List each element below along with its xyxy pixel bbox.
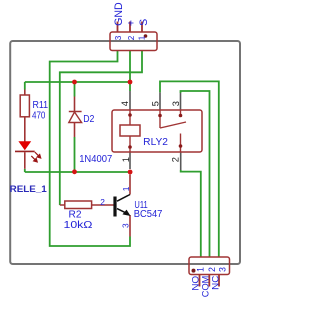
relay pin2 gray lead — [180, 152, 182, 170]
relay RLY2 coil body — [120, 125, 140, 136]
svg-text:NC: NC — [210, 276, 221, 290]
svg-text:GND: GND — [113, 2, 125, 26]
svg-text:10kΩ: 10kΩ — [64, 220, 94, 231]
resistor R11 leads — [24, 90, 26, 142]
wire + to D2 top — [74, 82, 76, 97]
diode D2 cathode bar — [69, 111, 82, 113]
diode D2 leads — [74, 97, 76, 138]
svg-text:470: 470 — [32, 110, 46, 121]
diode D2 triangle — [69, 112, 82, 123]
svg-text:3: 3 — [218, 267, 228, 272]
svg-text:1: 1 — [195, 267, 205, 272]
wire relay pin2 to NO column — [181, 170, 201, 257]
relay RLY2 pin2 stub — [180, 134, 182, 153]
svg-text:1: 1 — [121, 157, 131, 162]
transistor U11 body — [113, 195, 130, 217]
relay RLY2 pin5 contact stub — [159, 110, 161, 128]
svg-text:D2: D2 — [83, 114, 95, 125]
wire + net vertical from pin2 of J1 — [129, 51, 131, 92]
wire relay pin5 to NC column — [160, 81, 219, 257]
LED emission arrows — [31, 152, 40, 162]
svg-text:1: 1 — [121, 186, 131, 191]
junction dot + rail / relay pin4 — [128, 80, 133, 85]
relay RLY2 coil lead top — [129, 110, 131, 125]
svg-text:3: 3 — [121, 223, 131, 228]
transistor U11 collector lead — [129, 175, 131, 195]
resistor R11 body — [20, 95, 29, 117]
connector J2 box — [189, 257, 230, 275]
connector J1 pin1 marker dot — [144, 34, 148, 38]
relay RLY2 pin3 contact stub — [180, 110, 182, 115]
resistor R2 body — [65, 201, 92, 209]
svg-text:S: S — [138, 19, 150, 26]
connector J2 pin1 marker dot — [192, 269, 196, 273]
junction dot + rail / D2 — [72, 80, 77, 85]
relay pin5 gray lead — [159, 92, 161, 110]
LED D (RELE_1 indicator) leads — [24, 152, 26, 169]
svg-text:4: 4 — [120, 101, 130, 106]
svg-text:1: 1 — [137, 35, 146, 40]
connector J1 box — [110, 32, 157, 51]
svg-text:RELE_1: RELE_1 — [10, 184, 48, 195]
connector J1 pin stubs top — [118, 22, 143, 33]
svg-text:3: 3 — [171, 101, 181, 106]
wire + net horizontal rail to R11 and D2 — [25, 81, 130, 83]
relay RLY2 internal pin dots — [128, 113, 182, 149]
transistor U11 emitter lead — [129, 215, 131, 237]
wire LED cathode elbow — [24, 169, 26, 172]
svg-text:5: 5 — [151, 101, 161, 106]
svg-text:2: 2 — [207, 267, 217, 272]
border frame — [10, 41, 240, 264]
svg-text:2: 2 — [100, 197, 105, 207]
relay pin4 gray lead — [129, 91, 131, 110]
relay RLY2 coil lead bottom — [129, 136, 131, 152]
wire + rail to R11 top — [24, 82, 26, 90]
relay RLY2 box — [112, 110, 202, 152]
LED triangle — [18, 141, 31, 150]
svg-text:3: 3 — [114, 35, 123, 40]
svg-text:1N4007: 1N4007 — [79, 154, 112, 165]
wire collector node horizontal — [25, 171, 130, 173]
wire D2 bottom to collector node — [74, 137, 76, 172]
junction dot collector node / D2 — [72, 169, 77, 174]
svg-text:RLY2: RLY2 — [143, 137, 168, 148]
svg-text:BC547: BC547 — [134, 209, 163, 220]
svg-text:+: + — [125, 20, 137, 26]
LED cathode bar — [15, 150, 35, 152]
relay RLY2 switch arm — [160, 122, 186, 128]
wire GND net: pin3 of J1 down, left, down left side, along bottom to Q emitter — [50, 51, 130, 247]
relay pin3 gray lead — [180, 93, 182, 110]
relay pin1 gray lead — [129, 152, 131, 169]
svg-text:2: 2 — [171, 157, 181, 162]
wire relay pin3 to COM column — [181, 91, 210, 257]
connector J2 pin stubs bottom — [200, 275, 220, 287]
svg-text:2: 2 — [127, 35, 136, 40]
wire S net: pin1 of J1 down, left, down to R2 — [60, 51, 142, 206]
resistor R2 leads — [60, 204, 114, 206]
junction dot collector node / relay pin1 — [128, 170, 133, 175]
